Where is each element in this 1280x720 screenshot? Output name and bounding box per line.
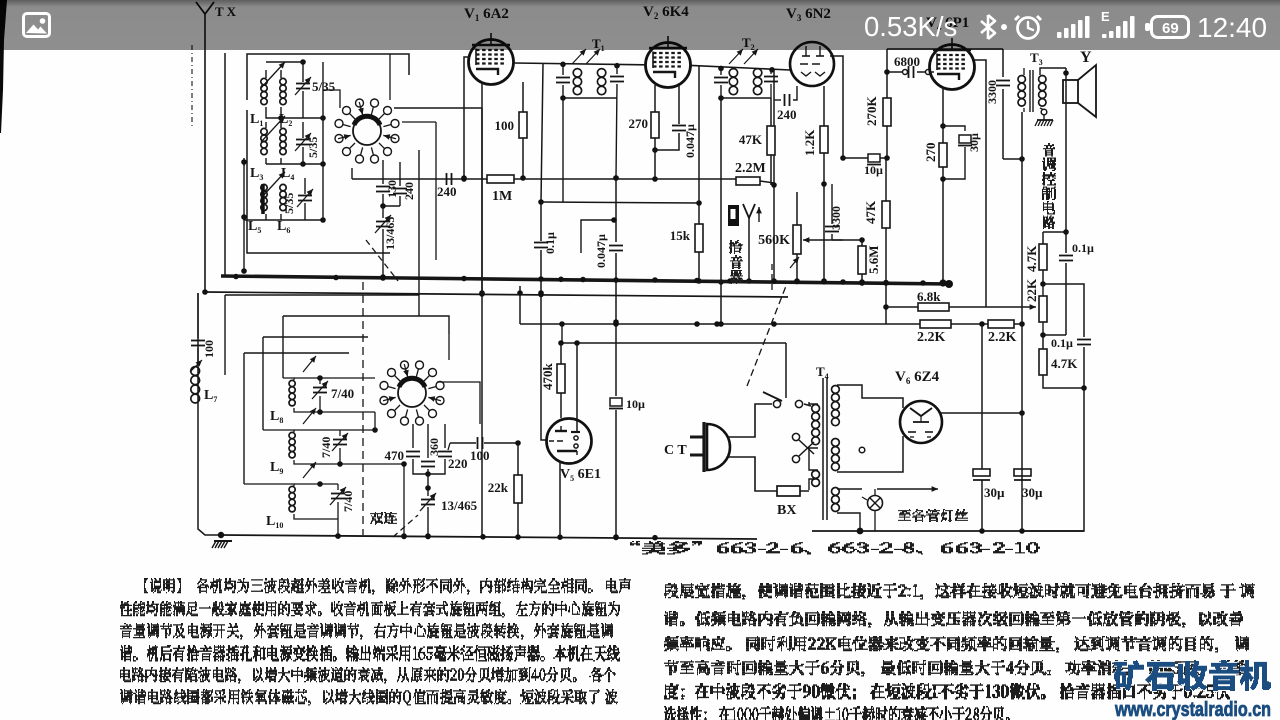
wire S1 to coils [323,54,390,108]
capacitor 6800 [887,66,934,78]
tube V2 6K4 [646,36,691,88]
resistor 6.8k [886,303,1000,311]
coil L4 [280,122,286,155]
svg-text:270: 270 [923,143,938,163]
label filament CJK [898,510,968,522]
resistor 1M [487,175,514,183]
label 6.8k [917,289,941,304]
label 2.2M [735,161,766,176]
ground main [198,293,232,548]
label 22K [1024,278,1039,302]
trimmer 7/40 band3 [330,484,346,539]
svg-text:V5 6E1: V5 6E1 [560,467,601,483]
wire tone to bus [1022,388,1084,531]
wire ladder left [224,295,226,375]
alarm icon [1015,16,1041,39]
resistor 22k [514,443,522,537]
svg-text:5/35: 5/35 [312,79,336,94]
wire ladder 1 [225,150,419,316]
svg-text:360: 360 [427,438,441,456]
wire 0.047u stub [581,217,617,253]
svg-text:C T: C T [664,443,687,458]
label 130 [385,180,399,198]
speaker Y [1063,65,1096,117]
coil L5 [261,184,267,214]
pickup jack [728,204,762,284]
svg-text:15k: 15k [670,228,691,243]
wire ladder 4 [244,353,349,484]
svg-text:6800: 6800 [894,54,920,69]
capacitor 10u coupling [867,154,881,165]
svg-text:L3: L3 [250,166,263,182]
svg-text:4.7K: 4.7K [1024,245,1039,272]
fuse BX [777,486,809,496]
tuning arrow L1L2 [261,62,285,88]
label L5 [248,219,261,235]
svg-text:240: 240 [402,182,416,200]
potentiometer 22K [1039,284,1047,338]
coil L9 [263,408,404,464]
wire heater drop [785,343,787,398]
resistor 2.2K a [920,320,988,328]
coil L7 [190,360,202,403]
label 3300 plate [985,80,999,104]
svg-text:0.047µ: 0.047µ [594,234,608,268]
label 100 osc [470,448,490,463]
label T3 [1030,50,1043,67]
svg-text:220: 220 [448,456,468,471]
label 30u b1 [984,485,1005,500]
resistor 270 [651,85,659,182]
label 5/35 band2 [306,137,320,158]
label pickup CJK [729,241,743,284]
capacitor 100 trap [191,293,205,364]
paragraph left column [120,579,631,705]
tube V3 6N2 [790,42,834,86]
capacitor 30u cath [943,126,972,179]
svg-text:L6: L6 [277,219,290,235]
resistor 2.2M [736,177,774,185]
wire V3 plate right [830,56,846,161]
wire V6 cathode out [940,410,1025,416]
bus ground bottom [221,533,757,540]
ground T3 [1035,115,1053,126]
svg-text:T3: T3 [1030,50,1043,67]
wire tone right [1043,284,1084,337]
bus B+ thick [221,274,953,288]
watermark url [1114,699,1271,720]
wire V4 top [951,45,953,49]
svg-text:1.2K: 1.2K [802,129,817,156]
wire T3 primary bottom [1022,108,1024,159]
capacitor 0.1u a [1059,232,1073,335]
svg-text:5/35: 5/35 [282,193,296,214]
wire ladder 2 [283,316,449,378]
label L4 [281,166,294,182]
wire caps join [380,203,400,218]
svg-text:22K: 22K [1024,278,1039,302]
status bar scrim [0,0,1280,50]
label L3 [250,166,263,182]
svg-text:L7: L7 [204,388,217,404]
svg-text:5/35: 5/35 [306,137,320,158]
label 240 V3grid [777,107,797,122]
coil box frame [247,54,409,253]
label 0.1u a [1072,241,1094,255]
svg-text:10µ: 10µ [864,163,883,177]
label 220 [448,456,468,471]
svg-text:L9: L9 [270,460,283,476]
voltage selector [792,433,814,462]
wire plate line y49 [887,48,1003,50]
coil L6 [280,184,286,210]
resistor 100 screen [519,82,527,181]
svg-text:30µ: 30µ [967,133,981,152]
svg-text:3300: 3300 [985,80,999,104]
wire S2 right feeds [402,122,480,424]
label L9 [270,460,283,476]
wire V1 left lead [461,57,470,181]
bus second [202,289,788,297]
signal bars 2 [1102,16,1135,38]
resistor 1.2K [820,86,828,187]
coil L8 [283,356,375,412]
label 7/40 b1 [331,386,354,401]
svg-text:12:40: 12:40 [1197,12,1267,43]
wire gang diag2 [393,515,418,537]
network speed text [864,11,957,42]
trimmer capacitor 5/35 band3 [297,178,313,217]
wire V4 cathode [940,88,947,286]
wire node 10u [843,155,890,161]
wire V3 cathode2 [821,184,827,284]
transformer T2 [721,49,771,98]
capacitor 10u mid [609,322,623,540]
tuning arrow L5L6 [261,172,285,198]
label 7/40 b2 [319,437,333,458]
wire pair3 bottom [241,214,326,223]
label T4 [816,364,829,381]
wire L9 drop [401,461,407,539]
variable capacitor 13/465 osc [375,215,391,280]
label 240 osc [402,182,416,200]
label Y [1080,49,1092,66]
label CT [664,443,687,458]
wire 15k branch [698,65,700,203]
transformer T1 [563,49,617,98]
label 10u mid [626,397,645,411]
svg-text:100: 100 [495,118,515,133]
capacitor 0.1u [534,202,548,296]
label 13/465 main [441,498,478,513]
wire osc line [448,443,476,450]
svg-text:270: 270 [629,116,649,131]
svg-text:0.1µ: 0.1µ [543,232,557,254]
wire AVC line [352,168,736,179]
wire left inner vertical [241,162,247,274]
label 22k [488,480,509,495]
label L8 [270,409,283,425]
label 1M [492,189,512,204]
capacitor 30u b2 [1014,469,1031,480]
rotary band switch S2 [380,361,444,425]
svg-text:L1: L1 [250,112,263,128]
svg-text:69: 69 [1162,20,1179,37]
wire B line [517,286,920,327]
clock text [1197,12,1267,43]
label 4.7K b [1051,356,1078,371]
svg-text:2.2K: 2.2K [988,330,1017,345]
paragraph right column [664,584,1255,720]
svg-text:T4: T4 [816,364,829,381]
capacitor 0.047u V2 [655,85,686,150]
capacitor 0.1u b [1077,340,1091,391]
capacitor T2 right [764,70,778,98]
svg-text:13/465: 13/465 [441,498,478,513]
label V5 6E1 [560,467,601,483]
trimmer capacitor 5/35 band1 [266,59,311,107]
label 5.6M [866,245,881,274]
label L10 [266,514,283,530]
coil L10 [244,462,338,519]
resistor 4.7K a [1039,232,1047,287]
label 1.2K [802,129,817,156]
svg-text:2.2M: 2.2M [735,161,766,176]
wire power bus [812,528,1084,534]
mains switch [759,392,811,408]
svg-text:4.7K: 4.7K [1051,356,1078,371]
svg-text:13/465: 13/465 [383,217,397,250]
wire 22K wiper [1000,304,1036,310]
label T2 [742,35,755,52]
label V6 6Z4 [895,369,940,386]
tuning arrow L3L4 [261,116,285,142]
wire gang diag3 [747,286,786,386]
coil L3 [261,122,267,155]
antenna [196,2,214,292]
svg-text:L8: L8 [270,409,283,425]
svg-text:BX: BX [777,503,796,518]
label 270 cath [923,143,938,163]
label 30u b2 [1022,485,1043,500]
svg-text:7/40: 7/40 [341,491,355,512]
tube V1 6A2 [469,33,514,85]
wire gang diag1 [366,240,398,281]
wire T4 sec bottom to V6 [837,436,903,472]
svg-text:30µ: 30µ [984,485,1005,500]
wire V5 right feed [576,343,578,431]
svg-text:240: 240 [777,107,797,122]
label L1 [250,112,263,128]
svg-text:470k: 470k [540,363,555,391]
capacitor 220 [428,424,452,474]
label 270K [864,96,879,127]
svg-text:270K: 270K [864,96,879,127]
svg-text:560K: 560K [758,233,790,248]
svg-text:47K: 47K [739,132,763,147]
svg-text:100: 100 [202,340,216,358]
label 0.1u b [1051,336,1073,350]
capacitor 30u b1 [973,324,990,531]
label V2 6K4 [643,4,689,21]
plug CT [690,404,777,491]
label V3 6N2 [786,6,831,23]
wire T4 sec top to V6 [837,385,903,408]
wire gang pickup [771,264,773,292]
wire trimmer common [322,62,324,220]
svg-text:100: 100 [470,448,490,463]
capacitor 240 avc [447,173,467,185]
wire L8 drop [374,412,376,430]
resistor 470k [557,364,565,418]
gallery icon [24,14,50,37]
label 10u coupling [864,163,883,177]
potentiometer 560K [790,192,865,284]
label 100 [495,118,515,133]
transformer T4 [809,378,839,520]
E label [1101,9,1110,24]
label 470k [540,363,555,391]
svg-text:7/40: 7/40 [319,437,333,458]
capacitor 240 V3grid [774,86,797,106]
svg-text:0.1µ: 0.1µ [1051,336,1073,350]
wire T2 primary drop [718,98,724,327]
svg-text:1M: 1M [492,189,512,204]
label 15k [670,228,691,243]
svg-text:2.2K: 2.2K [917,330,946,345]
wire speaker top node [1063,68,1069,235]
label 360 [427,438,441,456]
label L2 [279,112,292,128]
label 47K tone [863,200,878,224]
transformer T3 [1018,68,1066,112]
label 30u cath [967,133,981,152]
svg-text:470: 470 [385,448,405,463]
label V1 6A2 [464,6,509,23]
svg-text:L10: L10 [266,514,283,530]
capacitor 130 [376,160,390,206]
pilot lamp [837,489,883,534]
svg-text:6.8k: 6.8k [917,289,941,304]
label 2.2K a [917,330,946,345]
svg-text:Y: Y [1080,49,1092,66]
label 5/35 band1 [312,79,336,94]
label 4.7K a [1024,245,1039,272]
resistor 270 cath [939,143,947,167]
watermark site name [1114,661,1271,691]
label 2.2K b [988,330,1017,345]
wire pot bottom [1043,334,1066,336]
wire V1 cathode [479,83,485,296]
resistor 2.2K b [988,320,1025,328]
svg-text:0.53K/s: 0.53K/s [864,11,957,42]
label 6800 [894,54,920,69]
wire pair2 bottom [241,158,326,167]
wire IF rail 1 [514,62,790,73]
svg-text:47K: 47K [863,200,878,224]
label 0.1u [543,232,557,254]
label 470 [385,448,405,463]
wire screen line [558,324,786,346]
caption model numbers [630,542,1040,554]
wire tone top [1043,231,1066,233]
svg-text:240: 240 [437,184,457,199]
label BX [777,503,796,518]
capacitor 360 [421,424,435,477]
wire T3 sec bottom [1040,108,1047,115]
left page edge shadow [0,0,7,133]
label ganged CJK [370,513,397,525]
wire V1 plate branch [538,64,544,205]
label 0.047u left [594,234,608,268]
tube V6 6Z4 [900,401,942,443]
resistor 270K [883,49,891,158]
svg-text:10µ: 10µ [626,397,645,411]
label 47K [739,132,763,147]
resistor 4.7K b [1039,335,1084,388]
capacitor 0.047u V2grid [609,175,623,325]
coil L2 [280,70,286,112]
wire antenna ground branch [224,53,226,275]
signal bars 1 [1057,16,1090,38]
label 240 avc [437,184,457,199]
svg-text:E: E [1101,9,1110,24]
tube V5 6E1 [547,419,592,464]
label 5/35 band3 [282,193,296,214]
variable capacitor 13/465 main [420,474,436,539]
capacitor 3300 fb [825,184,839,240]
wire V5 cathodes [559,462,561,537]
wire AVC drop [771,70,777,284]
svg-text:0.1µ: 0.1µ [1072,241,1094,255]
wire V4 grid right [974,60,986,307]
label L7 [204,388,217,404]
label 100 trap [202,340,216,358]
label TX [215,4,237,19]
wire grid line y202 [541,200,702,206]
wire gang dash [362,282,364,535]
label L6 [277,219,290,235]
svg-text:L5: L5 [248,219,261,235]
label 7/40 b3 [341,491,355,512]
label tone circuit CJK [1042,144,1056,229]
svg-text:5.6M: 5.6M [866,245,881,274]
resistor 47K [767,98,775,185]
wire V5 left column [394,108,482,537]
bluetooth icon [981,15,995,39]
label V4 6P1 [926,15,969,32]
status bar content [0,0,1280,50]
svg-text:7/40: 7/40 [331,386,354,401]
wire ladder 3 [263,337,368,430]
trimmer 7/40 band2 [332,430,348,467]
bluetooth dot [1001,24,1007,30]
svg-text:30µ: 30µ [1022,485,1043,500]
capacitor 3300 plate [996,49,1010,159]
label 0.047u V2 [683,124,697,158]
wire right riser [1021,159,1023,531]
coil L1 [261,70,267,112]
resistor 15k [695,203,703,284]
capacitor T1 left [556,64,570,202]
svg-text:V6 6Z4: V6 6Z4 [895,369,940,386]
capacitor 240 osc [393,162,407,206]
wire shield dash-dot [191,45,193,128]
resistor 47K tone [882,158,890,324]
label 560K [758,233,790,248]
label 270 [629,116,649,131]
label 13/465 osc [383,217,397,250]
